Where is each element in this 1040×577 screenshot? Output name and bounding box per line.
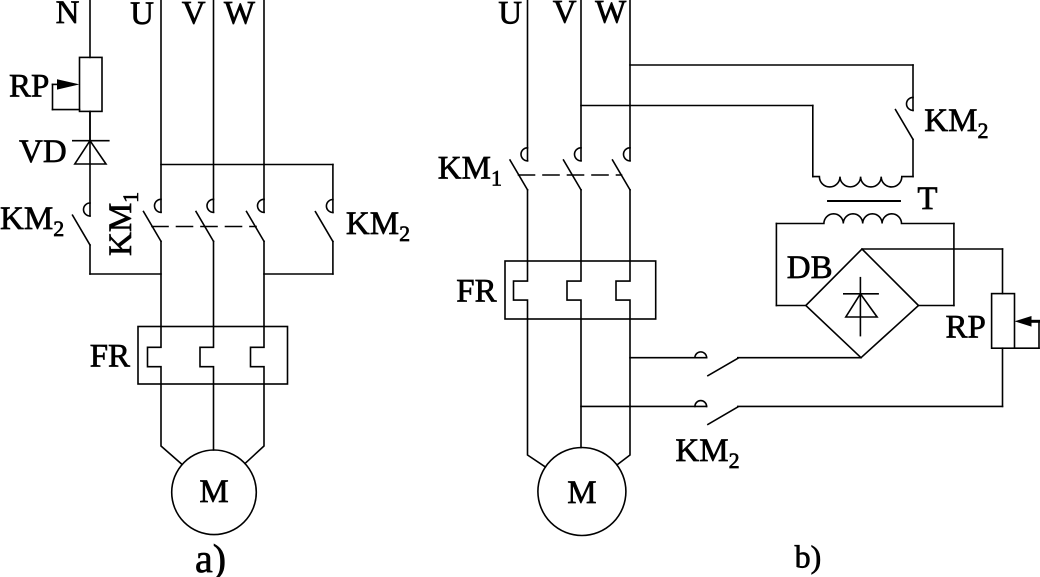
svg-text:b): b) — [795, 539, 822, 575]
svg-text:KM1: KM1 — [438, 151, 502, 191]
svg-text:KM2: KM2 — [924, 103, 988, 143]
svg-text:V: V — [182, 0, 206, 32]
svg-text:W: W — [595, 0, 627, 31]
svg-text:M: M — [199, 474, 228, 510]
svg-text:KM1: KM1 — [103, 192, 143, 256]
svg-text:T: T — [917, 181, 937, 217]
svg-text:KM2: KM2 — [346, 206, 410, 246]
svg-text:M: M — [567, 475, 596, 511]
svg-text:KM2: KM2 — [675, 433, 739, 473]
svg-text:FR: FR — [456, 273, 496, 309]
svg-text:RP: RP — [946, 309, 986, 345]
svg-text:U: U — [498, 0, 522, 31]
svg-text:FR: FR — [90, 338, 130, 374]
svg-text:V: V — [553, 0, 577, 31]
svg-text:a): a) — [195, 536, 226, 577]
svg-text:U: U — [130, 0, 154, 32]
svg-text:DB: DB — [787, 250, 833, 286]
svg-text:N: N — [56, 0, 80, 31]
svg-text:KM2: KM2 — [0, 201, 64, 241]
svg-text:W: W — [224, 0, 256, 32]
svg-text:RP: RP — [9, 69, 49, 105]
svg-text:VD: VD — [19, 134, 67, 170]
